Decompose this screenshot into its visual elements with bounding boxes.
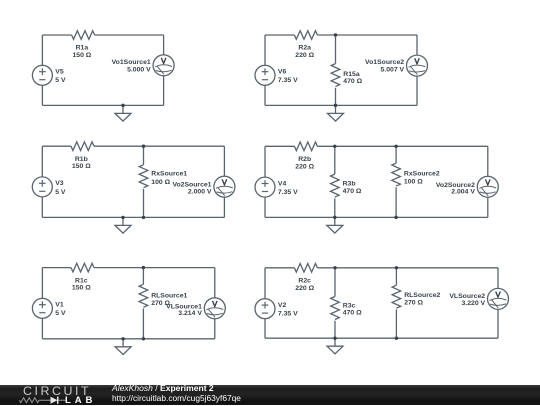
V2 value label: [278, 302, 298, 318]
logo resistor zigzag: [19, 397, 50, 402]
VLSource1 value label: [166, 304, 202, 317]
svg-text:R15a: R15a: [343, 71, 360, 78]
svg-text:Vo1Source1: Vo1Source1: [112, 59, 151, 66]
wire bottom: [42, 338, 214, 340]
voltage source V5: [32, 65, 52, 85]
wire right upper: [487, 146, 489, 176]
svg-text:5 V: 5 V: [55, 77, 66, 84]
wire branch RLSource2 lower: [395, 309, 397, 338]
wire right upper: [223, 146, 225, 176]
ground: [115, 339, 131, 355]
Vo2Source2 value label: [436, 182, 475, 195]
junction: [142, 337, 145, 340]
R1a value label: [72, 45, 91, 59]
wire left upper: [264, 35, 266, 65]
junction: [395, 266, 398, 269]
voltage source V1: [32, 298, 52, 318]
voltmeter Vo2Source2: [477, 176, 498, 197]
R2b value label: [295, 156, 314, 170]
wire branch RxSource2 lower: [395, 187, 397, 217]
svg-text:100 Ω: 100 Ω: [404, 179, 423, 186]
resistor R2b: [294, 142, 317, 151]
wire left upper: [41, 35, 43, 65]
wire branch R15a upper: [335, 35, 337, 64]
voltmeter VLSource2: [488, 288, 509, 309]
RxSource2 value label: [404, 170, 440, 185]
wire right lower: [223, 197, 225, 217]
junction: [334, 104, 337, 107]
R2c value label: [295, 278, 314, 292]
V3 value label: [55, 180, 66, 196]
junction: [333, 337, 336, 340]
svg-text:R3b: R3b: [343, 181, 356, 188]
wire right upper: [416, 35, 418, 55]
wire left lower: [264, 85, 266, 105]
resistor R1c: [71, 263, 94, 272]
wire branch R3c upper: [334, 268, 336, 297]
svg-text:5.007 V: 5.007 V: [381, 67, 405, 74]
svg-text:V6: V6: [278, 69, 287, 76]
junction: [121, 216, 124, 219]
voltmeter Vo1Source2: [407, 55, 428, 76]
resistor RLSource1: [139, 284, 148, 307]
wire left upper: [41, 146, 43, 177]
wire right lower: [416, 76, 418, 105]
R2a value label: [295, 45, 314, 59]
wire left lower: [264, 319, 266, 339]
svg-text:5 V: 5 V: [55, 310, 66, 317]
junction: [121, 104, 124, 107]
junction: [333, 145, 336, 148]
wire right lower: [214, 319, 216, 339]
R1b value label: [72, 156, 91, 170]
wire top-left segment: [265, 145, 294, 147]
resistor R15a: [331, 64, 340, 87]
wire top-right segment: [317, 145, 487, 147]
Vo1Source1 value label: [112, 59, 151, 73]
wire right upper: [163, 35, 165, 55]
wire left lower: [41, 318, 43, 339]
svg-text:150 Ω: 150 Ω: [72, 285, 91, 292]
wire top-left segment: [42, 145, 71, 147]
resistor RxSource2: [392, 163, 401, 186]
wire branch R15a lower: [335, 88, 337, 106]
wire top-left segment: [42, 34, 71, 36]
svg-text:Vo1Source2: Vo1Source2: [365, 59, 404, 66]
R3b value label: [343, 181, 362, 195]
wire left lower: [41, 85, 43, 105]
wire bottom: [42, 216, 224, 218]
svg-text:RLSource2: RLSource2: [404, 292, 440, 299]
ground: [115, 217, 131, 233]
svg-text:R1a: R1a: [76, 45, 89, 52]
resistor RLSource2: [392, 285, 401, 308]
svg-text:RxSource2: RxSource2: [404, 170, 440, 177]
svg-text:100 Ω: 100 Ω: [151, 179, 170, 186]
R1c value label: [72, 277, 91, 291]
svg-text:V3: V3: [55, 180, 64, 187]
svg-text:V2: V2: [278, 302, 287, 309]
svg-text:R1c: R1c: [75, 277, 88, 284]
svg-text:220 Ω: 220 Ω: [295, 52, 314, 59]
junction: [142, 266, 145, 269]
svg-text:V4: V4: [278, 180, 287, 187]
V1 value label: [55, 302, 66, 318]
svg-text:RLSource1: RLSource1: [151, 293, 187, 300]
voltmeter Vo2Source1: [214, 176, 235, 197]
resistor RxSource1: [139, 165, 148, 188]
wire bottom: [42, 104, 163, 106]
ground: [327, 217, 343, 233]
wire branch R3b lower: [334, 198, 336, 217]
wire right lower: [487, 197, 489, 217]
R15a value label: [343, 71, 362, 85]
wire top-left segment: [265, 267, 294, 269]
svg-text:3.214 V: 3.214 V: [178, 310, 202, 317]
junction: [395, 337, 398, 340]
Vo2Source1 value label: [172, 182, 211, 196]
svg-text:470 Ω: 470 Ω: [343, 310, 362, 317]
footer title: AlexKhosh / Experiment 2: [112, 383, 214, 393]
svg-text:7.35 V: 7.35 V: [278, 311, 298, 318]
CircuitLab logo: CIRCUIT wordmark: [23, 384, 91, 398]
wire left upper: [264, 146, 266, 177]
wire top-right segment: [94, 145, 224, 147]
wire branch RLSource2 upper: [395, 268, 397, 285]
svg-text:2.000 V: 2.000 V: [188, 188, 212, 195]
wire right upper: [497, 268, 499, 289]
voltage source V2: [255, 299, 275, 319]
resistor R1b: [71, 142, 94, 151]
svg-text:RxSource1: RxSource1: [151, 171, 187, 178]
svg-text:150 Ω: 150 Ω: [72, 163, 91, 170]
svg-text:R2a: R2a: [298, 45, 311, 52]
voltmeter VLSource1: [204, 298, 225, 319]
CircuitLab logo: resistor zigzag and diode symbol: [0, 385, 100, 406]
wire right upper: [214, 268, 216, 298]
resistor R3b: [331, 174, 340, 197]
V5 value label: [55, 69, 66, 85]
voltage source V6: [255, 65, 275, 85]
svg-text:470 Ω: 470 Ω: [343, 188, 362, 195]
voltage source V3: [32, 177, 52, 197]
svg-text:R2c: R2c: [298, 278, 311, 285]
RLSource1 value label: [151, 293, 187, 307]
ground: [327, 338, 343, 354]
junction: [142, 145, 145, 148]
wire branch RxSource2 upper: [395, 146, 397, 163]
wire branch RxSource1 lower: [143, 189, 145, 218]
wire branch RLSource1 upper: [142, 268, 144, 285]
svg-text:2.004 V: 2.004 V: [451, 188, 475, 195]
wire branch RLSource1 lower: [142, 309, 144, 339]
resistor R1a: [72, 31, 95, 40]
RxSource1 value label: [151, 171, 187, 186]
wire top-right segment: [317, 34, 417, 36]
svg-text:3.220 V: 3.220 V: [462, 300, 486, 307]
footer url: [112, 393, 241, 403]
wire top-right segment: [95, 34, 164, 36]
Vo1Source2 value label: [365, 59, 404, 73]
svg-text:470 Ω: 470 Ω: [343, 78, 362, 85]
wire bottom: [265, 337, 498, 339]
resistor R2c: [294, 263, 317, 272]
svg-text:V1: V1: [55, 302, 64, 309]
junction: [333, 266, 336, 269]
V6 value label: [278, 69, 298, 85]
svg-text:220 Ω: 220 Ω: [295, 163, 314, 170]
wire branch RxSource1 upper: [143, 146, 145, 165]
resistor R3c: [331, 297, 340, 320]
wire bottom: [265, 216, 488, 218]
wire left upper: [264, 268, 266, 299]
junction: [333, 216, 336, 219]
voltage source V4: [255, 177, 275, 197]
wire left lower: [264, 197, 266, 217]
wire left lower: [41, 197, 43, 218]
svg-text:7.35 V: 7.35 V: [278, 189, 298, 196]
voltmeter Vo1Source1: [153, 55, 174, 76]
wire right lower: [163, 76, 165, 106]
svg-text:5 V: 5 V: [55, 189, 66, 196]
V4 value label: [278, 180, 298, 196]
svg-text:R2b: R2b: [298, 156, 311, 163]
junction: [121, 337, 124, 340]
junction: [334, 33, 337, 36]
svg-text:VLSource2: VLSource2: [449, 293, 485, 300]
wire left upper: [41, 268, 43, 299]
wire top-right segment: [94, 267, 215, 269]
wire bottom: [265, 104, 417, 106]
svg-text:R3c: R3c: [343, 302, 356, 309]
junction: [394, 145, 397, 148]
wire top-left segment: [265, 34, 294, 36]
VLSource2 value label: [449, 293, 485, 307]
ground: [328, 105, 344, 121]
wire top-right segment: [317, 267, 498, 269]
resistor R2a: [294, 31, 317, 40]
wire branch R3b upper: [334, 146, 336, 174]
junction: [142, 216, 145, 219]
logo diode: [51, 396, 58, 403]
junction: [394, 216, 397, 219]
svg-text:7.35 V: 7.35 V: [278, 77, 298, 84]
R3c value label: [343, 302, 362, 316]
svg-text:V5: V5: [55, 69, 64, 76]
CircuitLab logo: LAB wordmark: [65, 395, 96, 406]
ground: [115, 105, 131, 121]
svg-text:150 Ω: 150 Ω: [72, 52, 91, 59]
wire top-left segment: [42, 267, 71, 269]
RLSource2 value label: [404, 292, 440, 306]
wire branch R3c lower: [334, 321, 336, 339]
svg-text:270 Ω: 270 Ω: [404, 299, 423, 306]
svg-text:5.000 V: 5.000 V: [127, 66, 151, 73]
svg-text:220 Ω: 220 Ω: [295, 285, 314, 292]
svg-text:R1b: R1b: [75, 156, 88, 163]
wire right lower: [497, 309, 499, 338]
